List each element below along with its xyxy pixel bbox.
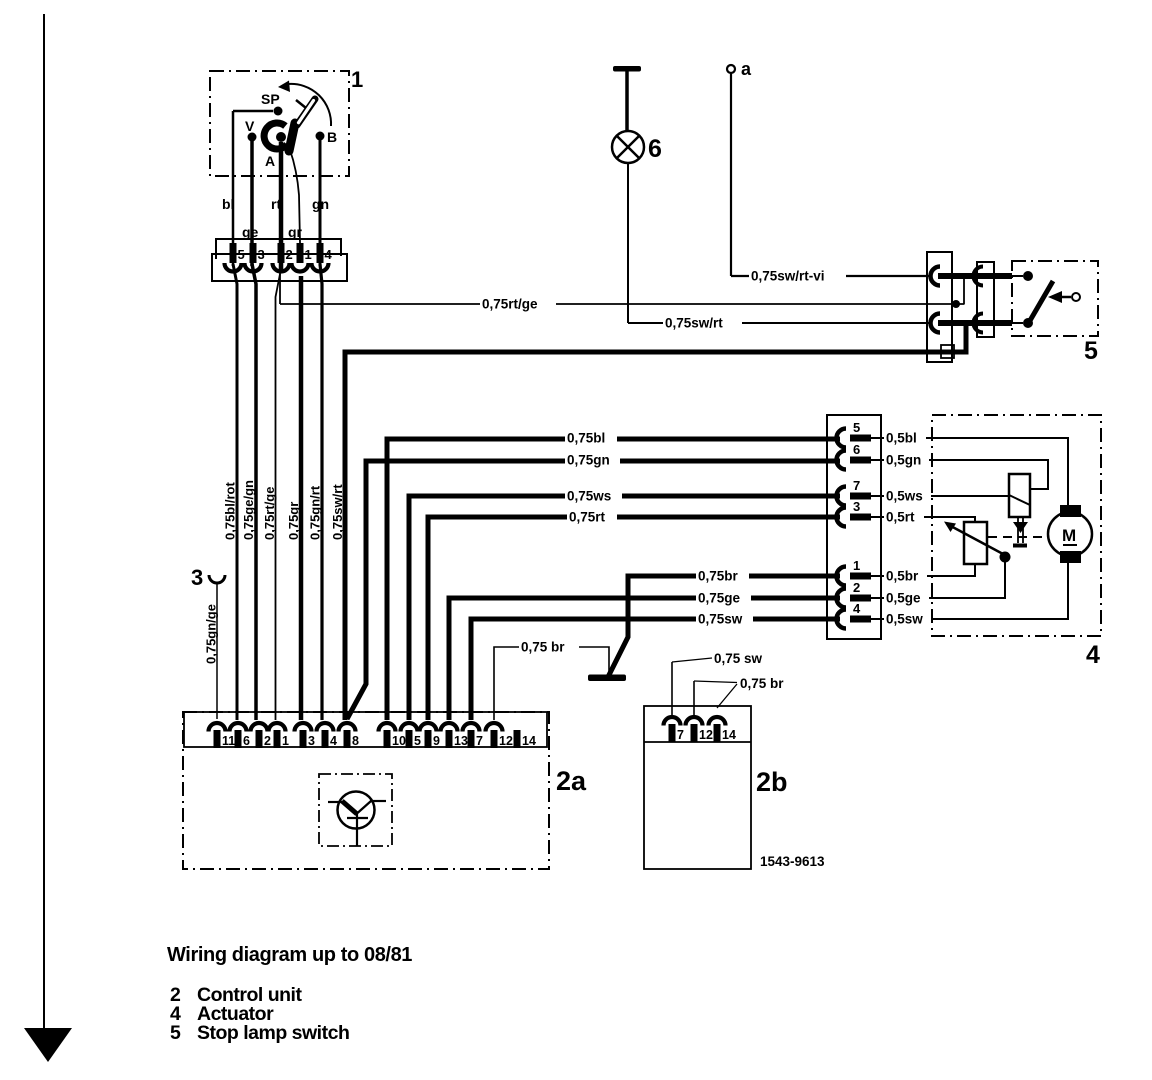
svg-text:5: 5 (853, 420, 860, 435)
svg-text:1: 1 (305, 247, 312, 262)
svg-text:0,5sw: 0,5sw (886, 612, 923, 627)
svg-text:0,75br: 0,75br (698, 569, 739, 584)
svg-text:4: 4 (1086, 641, 1100, 669)
svg-text:12: 12 (499, 734, 513, 748)
svg-text:11: 11 (222, 734, 235, 748)
svg-text:0,75sw/rt: 0,75sw/rt (665, 316, 723, 331)
svg-text:0,5br: 0,5br (886, 569, 919, 584)
svg-text:9: 9 (433, 734, 440, 748)
svg-text:0,75bl: 0,75bl (567, 431, 605, 446)
svg-text:3: 3 (308, 734, 315, 748)
svg-text:M: M (1062, 526, 1076, 545)
svg-text:2: 2 (853, 580, 860, 595)
svg-text:4: 4 (853, 601, 861, 616)
svg-text:0,75bl/rot: 0,75bl/rot (223, 482, 238, 540)
svg-text:A: A (265, 153, 275, 169)
svg-text:0,75rt/ge: 0,75rt/ge (262, 487, 277, 540)
svg-text:5: 5 (414, 734, 421, 748)
svg-text:0,75ge/gn: 0,75ge/gn (241, 480, 256, 540)
svg-text:14: 14 (722, 728, 736, 742)
svg-text:a: a (741, 59, 752, 79)
svg-text:6: 6 (853, 442, 860, 457)
svg-text:0,5bl: 0,5bl (886, 431, 917, 446)
svg-text:2a: 2a (556, 766, 587, 796)
svg-text:0,75sw/rt: 0,75sw/rt (330, 484, 345, 540)
svg-text:0,75ge: 0,75ge (698, 591, 741, 606)
svg-text:0,75sw: 0,75sw (698, 612, 743, 627)
svg-text:12: 12 (699, 728, 713, 742)
svg-text:0,75rt: 0,75rt (569, 510, 606, 525)
svg-text:0,5rt: 0,5rt (886, 510, 915, 525)
svg-text:3: 3 (191, 565, 203, 590)
svg-text:0,75ws: 0,75ws (567, 489, 611, 504)
svg-text:V: V (245, 118, 255, 134)
svg-text:0,75 sw: 0,75 sw (714, 651, 763, 666)
svg-text:2: 2 (264, 734, 271, 748)
svg-text:0,75gn: 0,75gn (567, 453, 610, 468)
svg-text:3: 3 (853, 499, 860, 514)
svg-text:6: 6 (648, 135, 662, 163)
svg-text:1: 1 (351, 67, 363, 92)
svg-text:0,75gn/rt: 0,75gn/rt (308, 485, 323, 540)
svg-text:gr: gr (288, 224, 303, 240)
svg-text:0,75 br: 0,75 br (740, 676, 784, 691)
svg-text:5: 5 (1084, 337, 1098, 365)
svg-text:0,75gn/ge: 0,75gn/ge (204, 604, 219, 664)
svg-text:2b: 2b (756, 767, 788, 797)
svg-text:7: 7 (853, 478, 860, 493)
svg-text:0,75 br: 0,75 br (521, 640, 565, 655)
svg-text:SP: SP (261, 91, 280, 107)
svg-text:4: 4 (325, 247, 333, 262)
svg-text:7: 7 (677, 728, 684, 742)
svg-text:7: 7 (476, 734, 483, 748)
svg-text:8: 8 (352, 734, 359, 748)
svg-text:0,5ws: 0,5ws (886, 489, 923, 504)
svg-text:10: 10 (392, 734, 406, 748)
svg-text:6: 6 (243, 734, 250, 748)
svg-text:13: 13 (454, 734, 468, 748)
svg-text:Wiring diagram up to 08/81: Wiring diagram up to 08/81 (167, 944, 412, 966)
svg-text:1: 1 (853, 558, 860, 573)
svg-text:0,5ge: 0,5ge (886, 591, 921, 606)
svg-text:0,75rt/ge: 0,75rt/ge (482, 297, 538, 312)
svg-text:0,5gn: 0,5gn (886, 453, 921, 468)
svg-text:1: 1 (282, 734, 289, 748)
svg-text:2: 2 (286, 247, 293, 262)
svg-text:4: 4 (330, 734, 337, 748)
svg-text:B: B (327, 129, 337, 145)
svg-text:5: 5 (238, 247, 245, 262)
svg-text:0,75gr: 0,75gr (286, 502, 301, 540)
svg-text:5: 5 (170, 1022, 181, 1044)
svg-text:3: 3 (258, 247, 265, 262)
svg-text:0,75sw/rt-vi: 0,75sw/rt-vi (751, 269, 825, 284)
svg-text:1543-9613: 1543-9613 (760, 854, 825, 869)
svg-text:Stop lamp switch: Stop lamp switch (197, 1022, 349, 1044)
svg-text:14: 14 (522, 734, 536, 748)
